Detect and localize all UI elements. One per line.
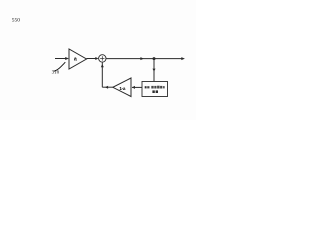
junction dot [153, 57, 156, 60]
label 316 with leader [52, 62, 66, 75]
svg-text:316: 316 [52, 70, 60, 75]
wire delay to feedback amp [132, 86, 142, 89]
wire feedback amp to corner [102, 86, 113, 89]
svg-text:a: a [74, 57, 77, 63]
delay block 400 symbol delay [142, 82, 168, 97]
feedback amplifier gain 1-a [113, 78, 131, 97]
text blob line1: 400 シンボル [145, 86, 165, 89]
svg-text:550: 550 [12, 17, 20, 23]
wire junction to delay box [153, 59, 156, 82]
svg-text:1-a: 1-a [119, 86, 125, 91]
wire input [55, 57, 69, 60]
wire amp to summer [87, 57, 99, 60]
wire output [106, 57, 185, 60]
summing node [99, 55, 106, 62]
wire feedback vertical to summer [101, 62, 104, 87]
text blob line2: 遅延 [152, 90, 158, 93]
amplifier A1 gain a [69, 49, 87, 69]
